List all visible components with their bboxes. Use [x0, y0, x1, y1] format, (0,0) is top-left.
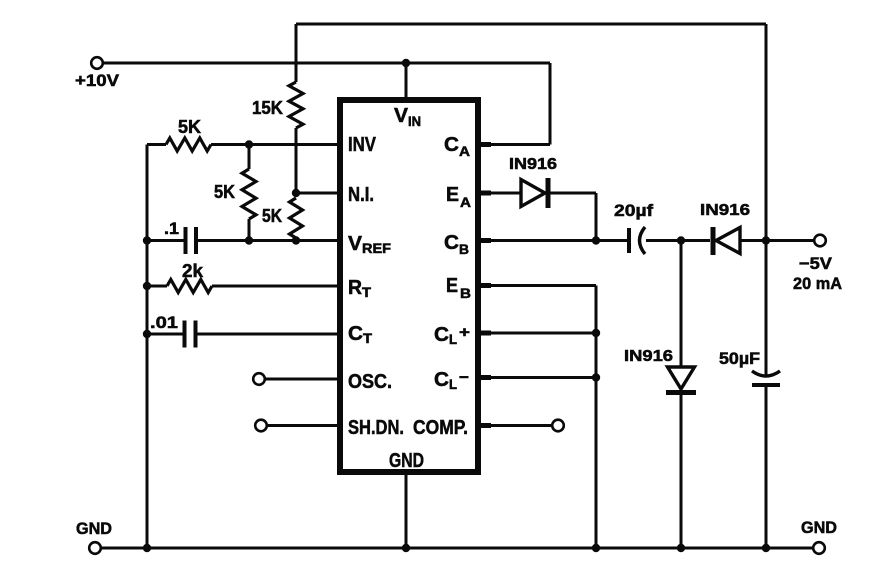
- svg-text:B: B: [460, 285, 471, 301]
- label 5K (INV-VREF): [214, 182, 235, 202]
- pin label INV: [348, 134, 377, 156]
- pin label COMP.: [413, 417, 468, 439]
- wire E_A to C_B node: [551, 193, 597, 241]
- label 50uF: [719, 349, 760, 368]
- pin stub right y=377.5: [478, 375, 491, 380]
- pin label C_L+: [434, 324, 470, 347]
- op-amp regulator IC U1: [340, 100, 478, 472]
- svg-text:OSC.: OSC.: [348, 371, 392, 393]
- resistor 5K (N.I.-VREF): [290, 198, 303, 238]
- svg-text:N.I.: N.I.: [348, 184, 374, 206]
- node RT rail junction: [143, 282, 151, 290]
- wire RT: [212, 285, 343, 288]
- svg-text:IN916: IN916: [700, 202, 750, 219]
- node ground rail 50uF: [762, 544, 770, 552]
- svg-text:C: C: [434, 324, 449, 346]
- node VREF junction right: [292, 236, 300, 244]
- svg-text:GND: GND: [801, 518, 837, 537]
- wire 15K top lead: [295, 24, 298, 82]
- terminal GND left: [89, 542, 101, 554]
- pin label N.I.: [348, 184, 374, 206]
- wire 5K upper lead: [248, 145, 251, 170]
- svg-text:E: E: [446, 275, 458, 297]
- label 20 mA: [793, 274, 842, 293]
- label 5K (INV): [178, 117, 201, 137]
- pin stub right y=333: [478, 331, 491, 336]
- svg-text:.1: .1: [164, 219, 179, 238]
- pin stub right y=425.5: [478, 423, 491, 428]
- wire GND pin drop: [405, 469, 408, 548]
- svg-text:A: A: [460, 194, 471, 210]
- pin stub right y=240.5: [478, 238, 491, 243]
- svg-text:A: A: [459, 143, 470, 159]
- node output rail junction: [762, 236, 770, 244]
- label IN916 (E_A): [509, 156, 557, 173]
- label IN916 (clamp): [624, 348, 673, 365]
- resistor 5K (INV-VREF): [242, 169, 256, 219]
- node CT rail junction: [143, 330, 151, 338]
- wire right drop to output node: [765, 24, 768, 241]
- svg-text:5K: 5K: [178, 117, 201, 137]
- pin label E_B: [446, 275, 471, 301]
- label +10V: [75, 71, 120, 90]
- svg-text:15K: 15K: [252, 98, 283, 118]
- svg-text:.01: .01: [150, 313, 178, 332]
- svg-text:INV: INV: [348, 134, 377, 156]
- terminal SH.DN.: [255, 420, 267, 432]
- label .1: [164, 219, 179, 238]
- pin label C_A: [444, 134, 470, 159]
- svg-text:L: L: [449, 377, 457, 392]
- node E_A/C_B junction: [592, 236, 600, 244]
- label GND left: [76, 519, 112, 538]
- wire clamp diode upper lead: [680, 241, 683, 367]
- svg-text:−5V: −5V: [799, 254, 833, 273]
- svg-text:C: C: [444, 134, 459, 156]
- wire diode to output: [741, 239, 814, 242]
- label IN916 (output): [700, 202, 750, 219]
- wire C_B: [481, 239, 627, 242]
- label 5K (N.I.-VREF): [262, 206, 282, 226]
- wire top rail: [296, 23, 766, 26]
- wire INV: [211, 143, 343, 146]
- terminal OSC: [253, 373, 265, 385]
- terminal +10V input: [91, 57, 103, 69]
- svg-text:GND: GND: [389, 450, 424, 472]
- pin label C_L-: [434, 369, 469, 392]
- svg-text:2k: 2k: [182, 261, 204, 281]
- wire 20uf to diode: [646, 239, 710, 242]
- pin stub right y=193: [478, 191, 491, 196]
- svg-text:20 mA: 20 mA: [793, 274, 842, 293]
- svg-text:−: −: [459, 369, 469, 386]
- svg-text:5K: 5K: [214, 182, 235, 202]
- svg-text:REF: REF: [362, 241, 391, 256]
- wire V_IN pin drop: [405, 63, 408, 103]
- resistor 5K (INV): [166, 138, 211, 151]
- svg-text:C: C: [434, 369, 449, 391]
- svg-text:V: V: [348, 233, 363, 255]
- node clamp junction: [677, 236, 685, 244]
- pin label V_IN: [394, 105, 421, 129]
- label GND right: [801, 518, 837, 537]
- node ground rail clamp: [677, 544, 685, 552]
- pin label E_A: [446, 184, 471, 210]
- node ground rail CL: [592, 544, 600, 552]
- diode IN916 (E_A): [521, 178, 548, 208]
- label -5V: [799, 254, 833, 273]
- svg-text:B: B: [459, 241, 469, 257]
- node N.I. junction: [292, 189, 300, 197]
- wire N.I.: [296, 192, 343, 195]
- node VREF left rail junction: [143, 236, 151, 244]
- capacitor 20uf: [629, 227, 645, 254]
- pin label R_T: [348, 277, 372, 300]
- svg-text:E: E: [446, 184, 459, 206]
- pin label OSC.: [348, 371, 392, 393]
- pin stub right y=144.5: [478, 142, 491, 147]
- diode IN916 (output): [713, 227, 740, 255]
- svg-text:T: T: [363, 331, 373, 346]
- resistor 2k: [167, 280, 212, 293]
- pin label V_REF: [348, 233, 391, 256]
- label 2k: [182, 261, 204, 281]
- wire CT left lead: [147, 333, 183, 336]
- node ground rail left: [143, 544, 151, 552]
- wire 5K lower lead: [295, 238, 298, 241]
- wire E_A lead: [481, 192, 521, 195]
- node C_L+ junction: [592, 329, 600, 337]
- wire E_B: [481, 284, 596, 287]
- wire CT: [198, 333, 344, 336]
- wire INV left lead: [147, 143, 166, 146]
- capacitor .01: [185, 321, 196, 348]
- wire C_L+: [481, 332, 596, 335]
- wire C_A riser: [481, 63, 550, 145]
- wire VREF left lead: [147, 239, 184, 242]
- svg-text:20µf: 20µf: [614, 201, 653, 220]
- node C_L- junction: [592, 373, 600, 381]
- svg-text:C: C: [348, 323, 363, 345]
- wire COMP: [481, 424, 552, 427]
- wire C_L-: [481, 376, 596, 379]
- label 15K: [252, 98, 283, 118]
- svg-text:+: +: [459, 324, 470, 341]
- pin label C_B: [444, 232, 469, 257]
- svg-text:V: V: [394, 105, 409, 127]
- svg-text:T: T: [362, 285, 372, 300]
- terminal -5V output: [814, 235, 826, 247]
- capacitor .1: [186, 227, 197, 254]
- pin label SH.DN.: [348, 417, 404, 439]
- svg-text:GND: GND: [76, 519, 112, 538]
- terminal GND right: [813, 542, 825, 554]
- wire 50uF upper lead: [765, 241, 768, 377]
- wire E_B down to ground: [595, 286, 598, 549]
- svg-text:IN916: IN916: [624, 348, 673, 365]
- node ground rail IC: [402, 544, 410, 552]
- resistor 15K: [289, 82, 303, 128]
- wire 2k left lead: [147, 285, 167, 288]
- wire clamp diode lower lead: [680, 394, 683, 548]
- pin label GND: [389, 450, 424, 472]
- label .01: [150, 313, 178, 332]
- node INV junction: [245, 140, 253, 148]
- capacitor 50uF: [752, 371, 780, 385]
- wire left rail: [146, 145, 149, 549]
- svg-text:IN: IN: [408, 114, 421, 129]
- svg-text:C: C: [444, 232, 459, 254]
- wire 50uF lower lead: [765, 387, 768, 548]
- svg-text:L: L: [449, 332, 457, 347]
- label 20uf: [614, 201, 653, 220]
- node VREF junction mid: [245, 236, 253, 244]
- wire 5K lead to VREF: [248, 219, 251, 241]
- svg-text:IN916: IN916: [509, 156, 557, 173]
- svg-text:+10V: +10V: [75, 71, 120, 90]
- node V_IN junction: [402, 59, 410, 67]
- svg-text:SH.DN.: SH.DN.: [348, 417, 404, 439]
- diode IN916 (clamp): [666, 367, 696, 393]
- terminal COMP: [552, 420, 564, 432]
- wire OSC: [265, 378, 343, 381]
- wire ground rail: [102, 547, 813, 550]
- svg-text:COMP.: COMP.: [413, 417, 468, 439]
- wire 15K to N.I.: [295, 128, 298, 193]
- svg-text:5K: 5K: [262, 206, 282, 226]
- svg-text:50µF: 50µF: [719, 349, 760, 368]
- wire SH.DN.: [267, 424, 343, 427]
- pin label C_T: [348, 323, 373, 346]
- wire +10V rail: [103, 62, 550, 65]
- svg-text:R: R: [348, 277, 363, 299]
- pin stub right y=285.5: [478, 283, 491, 288]
- wire VREF: [198, 239, 343, 242]
